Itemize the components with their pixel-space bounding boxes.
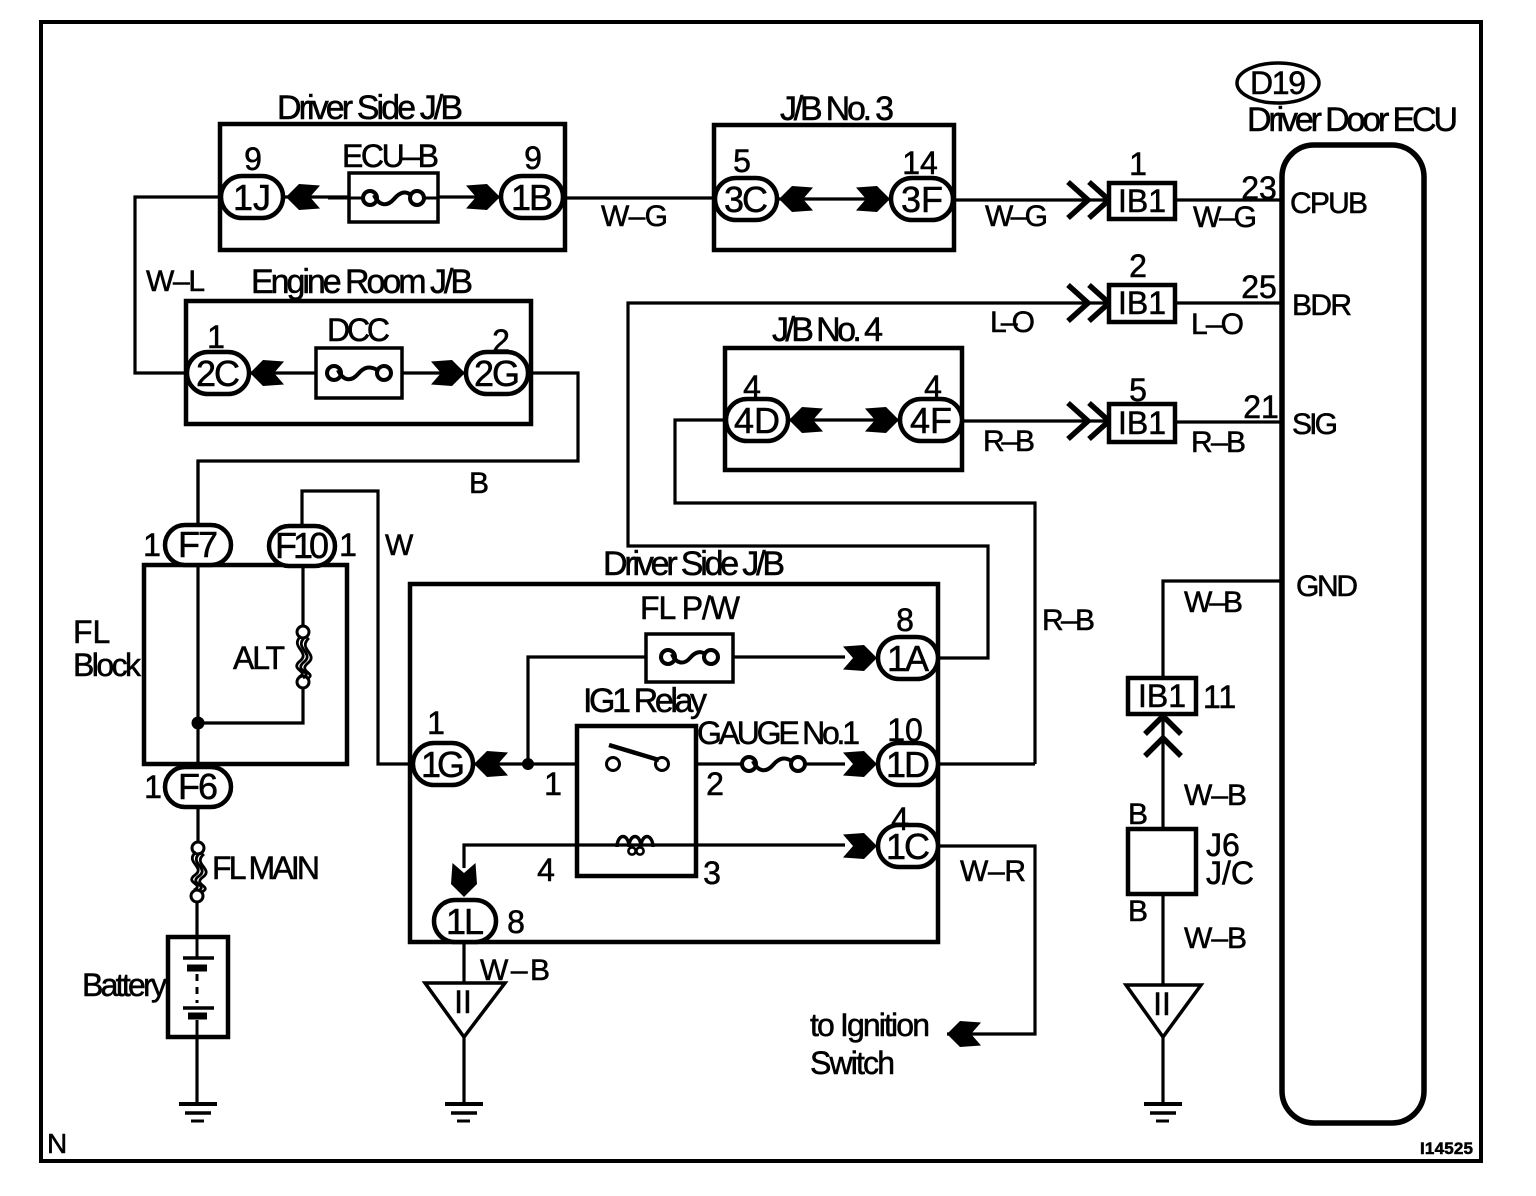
ground symbol right: [1144, 1104, 1182, 1121]
arrow to ignition switch: [947, 1021, 981, 1047]
arrow into 2C: [250, 360, 284, 386]
svg-text:4F: 4F: [910, 400, 952, 441]
arrow into 1G: [474, 751, 508, 777]
arrow into 1B: [466, 184, 500, 210]
svg-text:4: 4: [537, 852, 555, 888]
wire L-O IB1-2 to BDR pin 25: [1175, 301, 1282, 304]
svg-text:4: 4: [891, 801, 909, 837]
svg-text:1: 1: [207, 319, 225, 355]
wire R-B IB1-5 to SIG pin 21: [1175, 420, 1282, 423]
ground symbol below battery: [179, 1104, 217, 1121]
FL Block box: [73, 565, 347, 764]
arrow into 1A: [843, 645, 877, 671]
wire B from 2G to F7: [198, 373, 578, 525]
arrow into 1C: [843, 833, 877, 859]
svg-text:W–B: W–B: [1184, 586, 1243, 619]
wire ALT to F10: [301, 566, 304, 627]
svg-text:B: B: [1128, 895, 1148, 928]
fuse F10: [269, 525, 335, 566]
arrow into 2G: [431, 360, 465, 386]
svg-text:ALT: ALT: [233, 640, 285, 676]
svg-text:R–B: R–B: [1191, 426, 1246, 459]
wire J6 to right ground triangle: [1161, 894, 1164, 985]
svg-text:9: 9: [524, 140, 542, 176]
svg-text:to Ignition: to Ignition: [810, 1007, 930, 1043]
svg-text:1L: 1L: [446, 901, 484, 942]
svg-text:1D: 1D: [886, 744, 930, 785]
svg-text:1B: 1B: [511, 177, 553, 218]
svg-text:DCC: DCC: [327, 312, 390, 348]
ground triangle II (right): [1126, 985, 1201, 1037]
svg-text:4: 4: [924, 369, 942, 405]
connector 1L: [434, 900, 496, 942]
svg-text:1A: 1A: [887, 638, 929, 679]
svg-text:Block: Block: [73, 647, 142, 683]
chevron arrows into IB1-1: [1068, 182, 1109, 218]
svg-text:FL MAIN: FL MAIN: [212, 850, 320, 886]
svg-text:3C: 3C: [724, 179, 768, 220]
svg-text:GND: GND: [1296, 570, 1358, 603]
connector 1D: [878, 743, 938, 785]
wire ECU-B fuse to 1B: [438, 195, 501, 198]
svg-text:IB1: IB1: [1138, 678, 1186, 714]
chevron arrows into IB1-5: [1068, 403, 1109, 439]
fuse ECU-B: [328, 138, 439, 222]
svg-text:B: B: [1128, 798, 1148, 831]
svg-text:FL P/W: FL P/W: [640, 590, 741, 626]
svg-text:W–G: W–G: [1193, 201, 1257, 234]
svg-text:II: II: [454, 984, 472, 1020]
svg-text:Driver Side J/B: Driver Side J/B: [603, 545, 785, 583]
svg-text:3F: 3F: [901, 179, 943, 220]
wire DCC fuse to 2G: [402, 371, 466, 374]
svg-text:1: 1: [339, 527, 357, 563]
connector 3C: [715, 178, 777, 220]
svg-text:11: 11: [1203, 679, 1236, 715]
connector D19: [1237, 63, 1319, 103]
fuse GAUGE No.1: [697, 715, 860, 771]
wire L-O from IB1-2 down to 1A: [628, 303, 1109, 658]
svg-text:R–B: R–B: [983, 425, 1035, 458]
svg-text:4D: 4D: [734, 400, 780, 441]
svg-text:IG1 Relay: IG1 Relay: [583, 682, 707, 720]
wire W-G 1B to 3C: [563, 196, 716, 199]
ground symbol below 1L: [445, 1104, 483, 1121]
wire FL P/W fuse to 1A: [733, 655, 845, 658]
svg-text:8: 8: [896, 602, 914, 638]
ground triangle II (left): [425, 983, 505, 1037]
svg-text:1G: 1G: [421, 744, 465, 785]
wire battery to ground: [195, 1037, 198, 1104]
junction block J/B No. 4: [725, 311, 962, 470]
svg-text:3: 3: [703, 855, 721, 891]
arrow into 1D: [843, 751, 877, 777]
wire relay coil pin 3 to 1C: [696, 843, 845, 846]
arrow into 3C: [779, 186, 813, 212]
label to Ignition Switch: [810, 1007, 930, 1081]
connector 1G: [413, 743, 473, 785]
connector IB1 no.5: [1109, 404, 1175, 442]
wire W-G 3F to IB1-1: [953, 198, 1109, 201]
svg-text:II: II: [1153, 986, 1171, 1022]
svg-text:D19: D19: [1250, 65, 1306, 101]
svg-text:1: 1: [143, 527, 161, 563]
relay IG1: [577, 682, 707, 876]
fusible link ALT: [233, 626, 311, 688]
junction block Engine Room J/B: [186, 263, 531, 424]
svg-text:10: 10: [887, 712, 923, 748]
connector 2C: [187, 352, 249, 394]
svg-text:Engine Room J/B: Engine Room J/B: [251, 263, 473, 301]
svg-text:1: 1: [544, 766, 562, 802]
wire IB1-11 to J6: [1161, 714, 1164, 829]
svg-text:W: W: [385, 529, 414, 562]
arrow into 4F: [865, 407, 899, 433]
connector 3F: [891, 178, 953, 220]
connector 2G: [466, 352, 528, 394]
wire F6 to FL MAIN link: [196, 804, 199, 843]
svg-text:L–O: L–O: [1191, 308, 1244, 341]
svg-text:Driver Door ECU: Driver Door ECU: [1247, 101, 1458, 139]
connector 1A: [878, 637, 938, 679]
svg-text:W–L: W–L: [146, 265, 205, 298]
wire left ground triangle to ground symbol: [462, 1037, 465, 1104]
svg-text:21: 21: [1243, 389, 1279, 425]
fusible link FL MAIN: [191, 842, 320, 902]
wire ALT to junction: [198, 687, 303, 723]
junction dot at relay pin 1 wire: [522, 758, 534, 770]
wire 1D to R-B vertical: [938, 762, 1035, 765]
wire W from F10 to 1G: [302, 491, 413, 764]
svg-text:GAUGE No.1: GAUGE No.1: [697, 715, 860, 751]
svg-text:IB1: IB1: [1118, 405, 1166, 441]
svg-text:5: 5: [1129, 372, 1147, 408]
svg-text:2: 2: [706, 766, 724, 802]
connector IB1 no.2: [1109, 285, 1175, 322]
wire FL MAIN link to battery: [195, 901, 198, 937]
svg-text:N: N: [47, 1128, 67, 1159]
svg-text:B: B: [469, 467, 489, 500]
svg-text:W–B: W–B: [1184, 779, 1247, 812]
svg-text:F7: F7: [178, 524, 218, 565]
svg-text:2G: 2G: [474, 353, 520, 394]
wire relay pin 2 to GAUGE fuse: [696, 762, 743, 765]
connector 1B: [501, 176, 563, 218]
fuse DCC: [316, 312, 402, 398]
connector IB1 no.1: [1109, 183, 1175, 219]
svg-text:Battery: Battery: [82, 967, 167, 1003]
svg-text:W–G: W–G: [985, 200, 1048, 233]
wire W-B GND pin 13 to IB1-11: [1163, 581, 1282, 678]
wire F7 down through FL block to F6: [196, 461, 199, 767]
connector 4F: [900, 399, 962, 441]
wire 3C to 3F: [777, 197, 891, 200]
svg-text:Switch: Switch: [810, 1045, 895, 1081]
svg-text:L–O: L–O: [990, 306, 1035, 339]
arrow down into 1L: [451, 863, 477, 897]
svg-text:W–R: W–R: [960, 855, 1026, 888]
arrow into 4D: [789, 407, 823, 433]
chevron arrows up into IB1-11: [1145, 716, 1181, 756]
connector 4D: [726, 399, 788, 441]
wire R-B 4F to IB1-5: [962, 419, 1109, 422]
wire right ground triangle to ground symbol: [1161, 1037, 1164, 1104]
svg-text:W–G: W–G: [601, 200, 668, 233]
fuse F7: [165, 524, 231, 565]
junction block J/B No. 3: [714, 90, 954, 250]
junction block Driver Side J/B (top): [220, 89, 565, 250]
svg-text:Driver Side J/B: Driver Side J/B: [277, 89, 463, 127]
wire 4D to 4F: [787, 418, 900, 421]
wire 1J to ECU-B fuse: [283, 195, 349, 198]
svg-text:F10: F10: [275, 525, 329, 566]
svg-text:ECU–B: ECU–B: [342, 138, 439, 174]
svg-text:1: 1: [427, 705, 445, 741]
wire 2C to DCC fuse: [249, 371, 316, 374]
svg-text:1: 1: [1129, 146, 1147, 182]
junction block Driver Side J/B (middle): [410, 545, 938, 942]
svg-text:F6: F6: [178, 766, 218, 807]
wire GAUGE fuse to 1D: [804, 762, 845, 765]
connector 1J: [221, 176, 283, 218]
svg-text:5: 5: [733, 143, 751, 179]
wire 1L to ground: [462, 941, 465, 983]
svg-text:I14525: I14525: [1420, 1139, 1473, 1158]
wire W-R 1C to ignition switch arrow: [938, 846, 1035, 1034]
svg-text:2C: 2C: [196, 353, 240, 394]
svg-text:CPUB: CPUB: [1290, 187, 1368, 220]
chevron arrows into IB1-2: [1068, 285, 1109, 321]
battery: [82, 937, 228, 1037]
connector IB1 no.11: [1128, 678, 1196, 714]
wire relay coil pin 4 to 1L: [464, 845, 577, 868]
arrow into 1J: [286, 184, 320, 210]
svg-text:J/B No. 4: J/B No. 4: [772, 311, 883, 349]
wire 1G to IG1 relay pin 1: [473, 762, 577, 765]
fuse F6: [165, 766, 231, 807]
svg-text:1J: 1J: [233, 177, 271, 218]
fuse FL P/W: [640, 590, 741, 682]
arrow into 3F: [856, 186, 890, 212]
svg-text:IB1: IB1: [1118, 285, 1166, 321]
ECU D19 Driver Door ECU box: [1282, 145, 1424, 1123]
svg-text:W–B: W–B: [1184, 922, 1247, 955]
svg-text:2: 2: [492, 323, 510, 359]
svg-text:9: 9: [244, 141, 262, 177]
connector 1C: [878, 825, 938, 867]
svg-text:1: 1: [144, 769, 162, 805]
svg-text:BDR: BDR: [1292, 289, 1352, 322]
svg-text:4: 4: [743, 369, 761, 405]
wire R-B loop 4D to 1D: [675, 420, 1035, 764]
junction dot in FL block: [192, 717, 205, 730]
svg-text:14: 14: [902, 145, 938, 181]
wire W-L from 1J to 2C: [135, 197, 221, 373]
svg-text:FL: FL: [73, 614, 110, 650]
svg-text:8: 8: [507, 904, 525, 940]
wire junction up to FL P/W: [528, 657, 646, 765]
svg-text:2: 2: [1129, 248, 1147, 284]
svg-text:25: 25: [1241, 269, 1277, 305]
wire W-G IB1-1 to CPUB pin 23: [1175, 198, 1282, 201]
junction connector J6 J/C: [1128, 827, 1254, 894]
svg-text:R–B: R–B: [1042, 604, 1095, 637]
wire coil through relay: [577, 843, 696, 846]
svg-text:J/B No. 3: J/B No. 3: [780, 90, 894, 128]
svg-text:J/C: J/C: [1206, 855, 1254, 891]
svg-text:SIG: SIG: [1292, 408, 1338, 441]
svg-text:IB1: IB1: [1118, 183, 1166, 219]
